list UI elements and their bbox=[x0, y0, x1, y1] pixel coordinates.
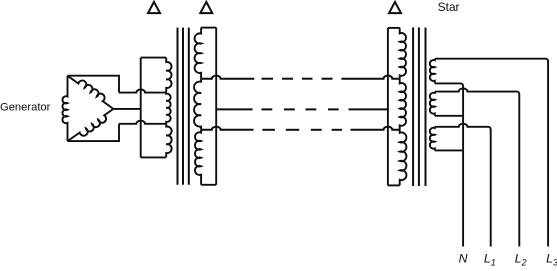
svg-text:N: N bbox=[459, 251, 468, 265]
svg-text:L3: L3 bbox=[546, 251, 557, 266]
svg-text:Generator: Generator bbox=[0, 102, 51, 114]
svg-text:L1: L1 bbox=[484, 251, 496, 266]
svg-text:Star: Star bbox=[438, 0, 460, 14]
svg-text:L2: L2 bbox=[515, 251, 527, 266]
